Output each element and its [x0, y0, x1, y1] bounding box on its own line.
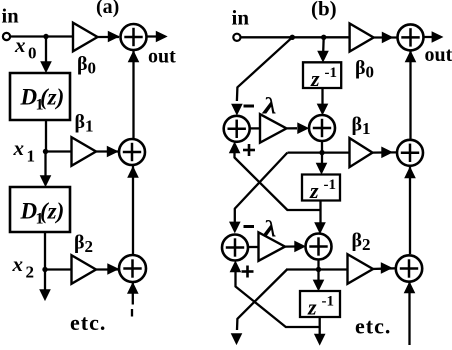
svg-text:1: 1 — [362, 119, 371, 138]
svg-text:z: z — [307, 295, 317, 320]
svg-text:2: 2 — [26, 263, 35, 282]
svg-text:(z): (z) — [40, 199, 64, 224]
svg-text:-1: -1 — [324, 177, 337, 193]
svg-text:0: 0 — [28, 44, 37, 63]
svg-text:β: β — [74, 232, 85, 254]
svg-text:-1: -1 — [322, 294, 335, 310]
svg-text:β: β — [355, 57, 366, 79]
svg-text:1: 1 — [85, 117, 94, 136]
svg-text:(b): (b) — [311, 0, 337, 21]
svg-text:-1: -1 — [325, 65, 338, 81]
svg-text:out: out — [425, 44, 452, 66]
svg-text:in: in — [2, 6, 20, 28]
svg-text:β: β — [352, 230, 363, 252]
svg-text:0: 0 — [366, 63, 375, 82]
svg-text:(a): (a) — [96, 0, 119, 18]
svg-text:x: x — [12, 252, 24, 276]
svg-text:0: 0 — [88, 59, 97, 78]
svg-text:1: 1 — [27, 147, 36, 166]
svg-text:β: β — [352, 114, 363, 136]
svg-text:λ: λ — [262, 93, 277, 119]
svg-text:β: β — [77, 53, 88, 75]
svg-text:etc.: etc. — [355, 314, 391, 339]
svg-text:z: z — [309, 178, 319, 203]
svg-text:out: out — [148, 46, 176, 68]
svg-text:x: x — [13, 136, 25, 160]
svg-text:in: in — [232, 6, 250, 30]
svg-text:x: x — [14, 33, 26, 57]
svg-text:etc.: etc. — [70, 310, 106, 335]
svg-text:2: 2 — [362, 235, 371, 254]
svg-text:z: z — [310, 66, 320, 91]
svg-text:(z): (z) — [40, 85, 64, 110]
svg-text:2: 2 — [85, 237, 94, 256]
svg-text:β: β — [75, 111, 86, 133]
